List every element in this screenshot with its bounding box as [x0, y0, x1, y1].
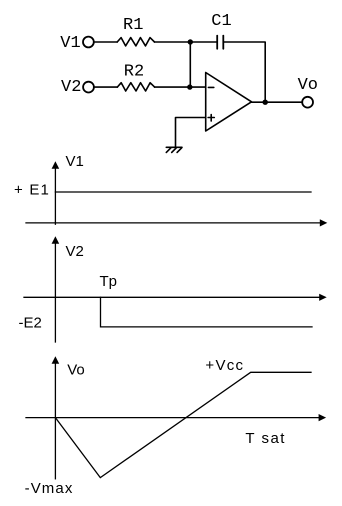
op-amp U1 — [206, 73, 252, 132]
V2 waveform step at Tp — [101, 297, 313, 327]
op-amp minus pin mark — [208, 86, 213, 88]
wire C1 to feedback corner — [224, 42, 265, 102]
resistor R2 — [117, 83, 154, 91]
svg-text:R1: R1 — [123, 16, 143, 35]
wire V2 to R2 — [94, 86, 117, 88]
svg-text:V2: V2 — [61, 78, 81, 97]
svg-text:-E2: -E2 — [19, 315, 42, 332]
op-amp plus pin mark — [208, 117, 214, 119]
V2 plot horizontal axis — [24, 296, 319, 298]
Vo waveform — [55, 372, 311, 477]
svg-text:V1: V1 — [60, 34, 80, 53]
wire V1 to R1 — [94, 41, 117, 43]
V1 plot vertical axis — [54, 168, 56, 225]
junction node top — [188, 39, 193, 44]
svg-text:V1: V1 — [66, 153, 84, 170]
Vo plot vertical axis — [54, 363, 56, 479]
V1 plot horizontal axis — [26, 222, 320, 224]
svg-text:+Vcc: +Vcc — [205, 357, 244, 374]
terminal Vo — [302, 97, 313, 108]
capacitor C1 — [216, 36, 218, 49]
wire op-amp output to Vo — [252, 101, 302, 103]
wire non-inverting input — [176, 118, 206, 147]
wire junction vertical — [189, 42, 191, 87]
terminal V2 — [83, 82, 94, 93]
resistor R1 — [117, 38, 154, 46]
ground — [166, 146, 182, 148]
wire R2 to op-amp inverting input — [155, 86, 206, 88]
svg-text:Vo: Vo — [298, 76, 318, 95]
wire R1 to C1 — [155, 41, 217, 43]
V1 waveform E1 level — [55, 191, 311, 193]
svg-text:C1: C1 — [211, 12, 231, 31]
V2 plot vertical axis — [54, 243, 56, 343]
junction node output — [263, 100, 268, 105]
svg-text:-Vmax: -Vmax — [25, 480, 74, 497]
svg-text:V2: V2 — [66, 243, 84, 260]
terminal V1 — [83, 37, 94, 48]
svg-text:+ E1: + E1 — [14, 182, 50, 199]
svg-text:R2: R2 — [124, 63, 144, 82]
svg-text:Tp: Tp — [100, 273, 118, 290]
Vo plot horizontal axis — [26, 417, 319, 419]
svg-text:Vo: Vo — [67, 361, 85, 378]
junction node inverting — [187, 84, 192, 89]
svg-text:T sat: T sat — [245, 430, 286, 447]
